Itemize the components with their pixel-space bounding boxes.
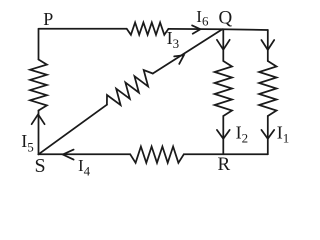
current arrow I2 upper (down) on middle branch — [217, 40, 230, 50]
svg-text:R: R — [218, 154, 231, 175]
diagonal wire resistor to node Q — [153, 29, 223, 73]
svg-text:I3: I3 — [167, 28, 180, 51]
wire node Q down to middle resistor — [222, 29, 224, 61]
svg-text:I6: I6 — [196, 7, 209, 29]
wire right resistor to bottom-right corner — [267, 116, 269, 154]
svg-text:P: P — [43, 9, 53, 29]
current arrow I1 lower (down) — [261, 130, 274, 139]
wire bottom resistor to node R and bottom-right corner — [184, 153, 268, 155]
svg-text:I4: I4 — [78, 156, 91, 179]
resistor on middle branch (Q to R) — [215, 61, 232, 116]
wire P to top resistor — [39, 28, 127, 30]
svg-text:S: S — [35, 155, 46, 177]
resistor on bottom wire between S and R — [130, 147, 184, 163]
svg-text:I5: I5 — [21, 131, 34, 155]
svg-text:I2: I2 — [236, 122, 249, 145]
current arrow I3 on diagonal (up-right) — [174, 55, 184, 64]
current arrow I5 (up) on left branch — [32, 114, 45, 124]
wire left resistor to node S — [38, 111, 40, 155]
wire middle resistor to node R — [222, 116, 224, 154]
wire node Q to top-right corner — [222, 28, 267, 31]
resistor on diagonal branch (S to Q) — [107, 70, 153, 105]
svg-text:I1: I1 — [277, 122, 290, 145]
svg-text:Q: Q — [219, 8, 233, 29]
current arrow I4 (left) on bottom wire — [63, 150, 74, 160]
current arrow I2 lower (down) — [217, 130, 230, 139]
resistor on right branch (corner to R side) — [259, 61, 276, 116]
wire P down to left resistor — [38, 29, 40, 60]
current arrow I6 on top wire — [192, 25, 200, 33]
wire top-right corner down to right resistor — [267, 30, 269, 61]
resistor on left branch (P to S) — [30, 60, 47, 111]
wire S to bottom resistor — [39, 153, 131, 155]
resistor on top wire between P and Q — [127, 23, 169, 35]
wire top resistor to node Q — [169, 28, 223, 30]
current arrow I1 upper (down) on right branch — [261, 40, 274, 50]
diagonal wire S to diagonal resistor — [38, 105, 107, 155]
